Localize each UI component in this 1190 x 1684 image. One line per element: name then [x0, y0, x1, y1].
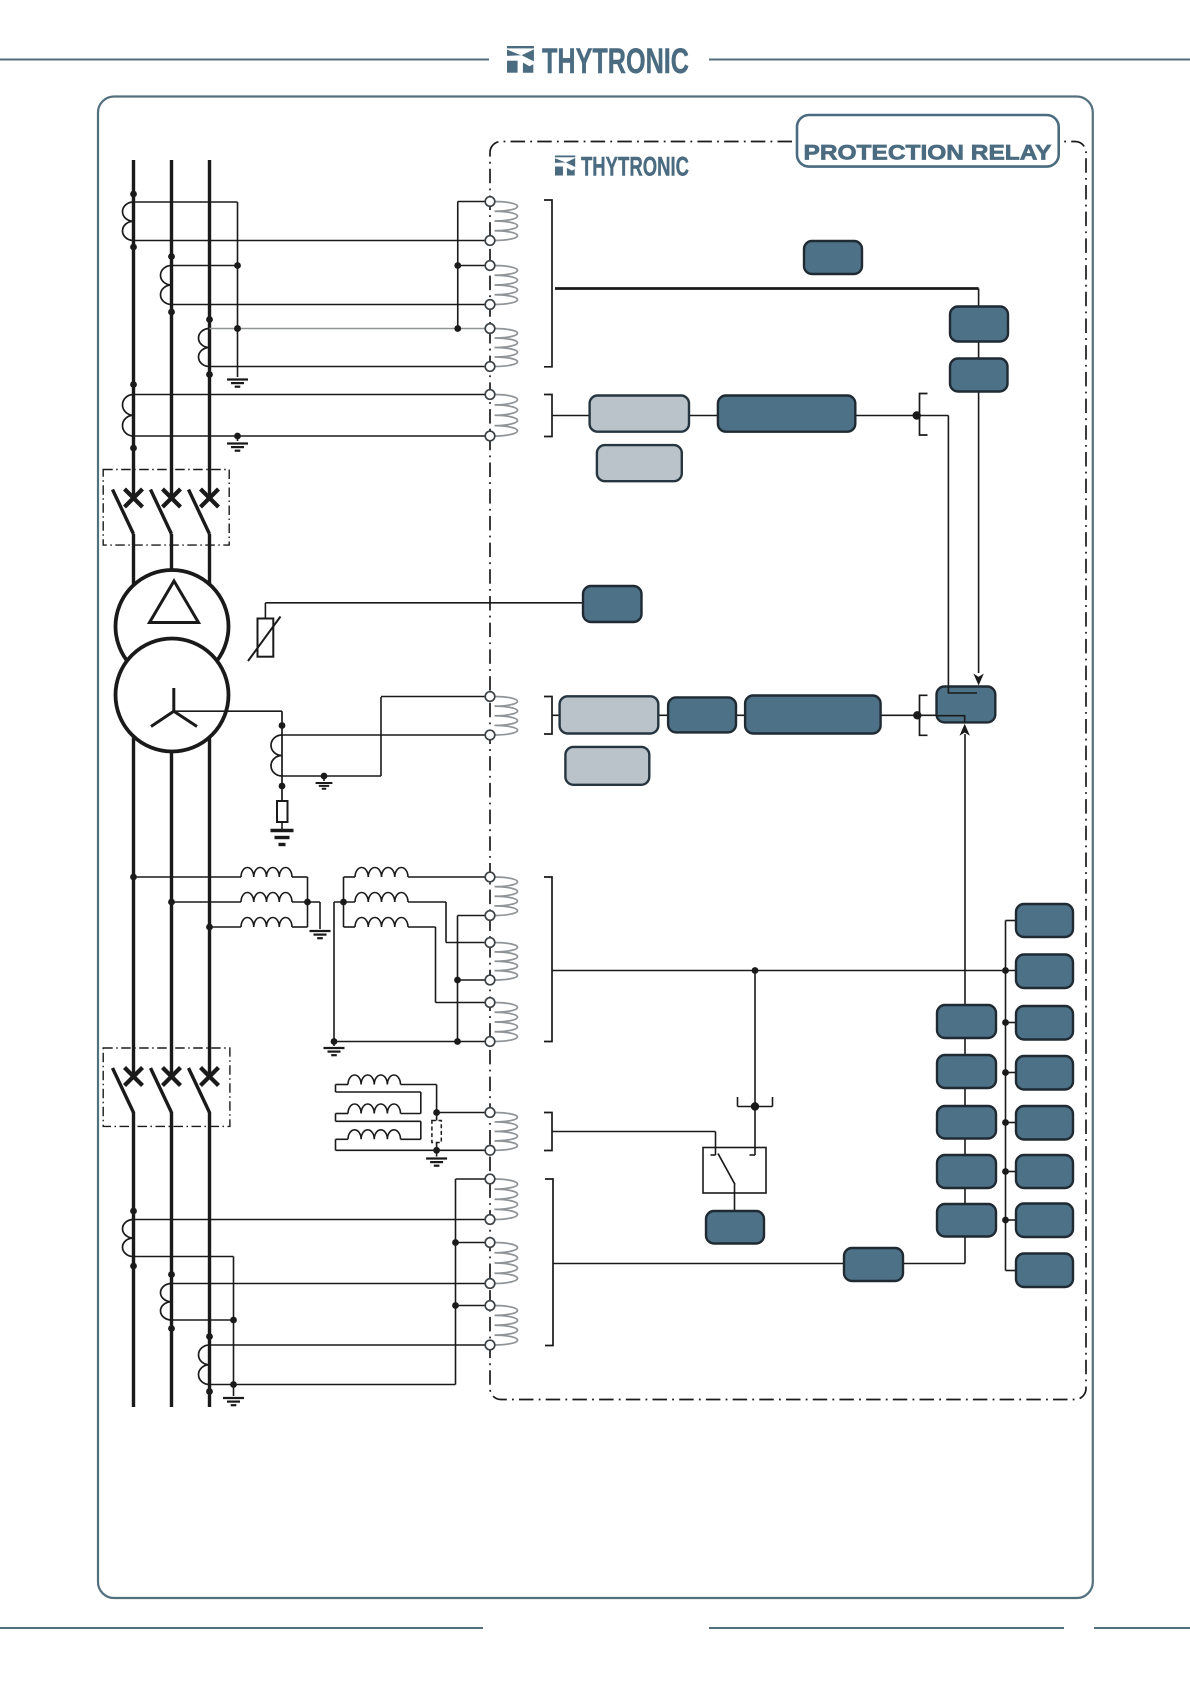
svg-text:THYTRONIC: THYTRONIC: [581, 152, 689, 182]
svg-text:THYTRONIC: THYTRONIC: [542, 42, 689, 81]
svg-text:PROTECTION RELAY: PROTECTION RELAY: [804, 141, 1052, 165]
